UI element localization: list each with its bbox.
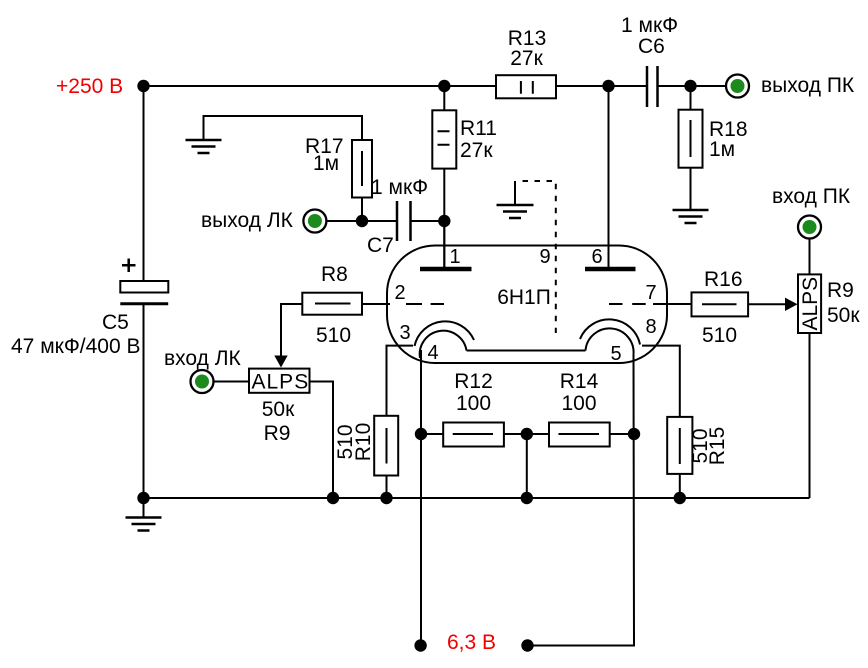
wire node to C7: [362, 220, 397, 222]
arrow wiper left pot: [274, 356, 287, 368]
svg-text:100: 100: [456, 392, 491, 415]
wire heater pin 4 down: [420, 350, 422, 646]
wire cathode pin 8 to R15: [642, 346, 680, 417]
grid left dashes pin 2: [406, 303, 444, 305]
resistor R18: [690, 86, 692, 110]
wire pot R9 to ground bus: [310, 382, 334, 499]
wire anode pin 6 lead: [608, 86, 610, 269]
wire terminal to pot R9: [214, 381, 250, 383]
resistor R8: [302, 293, 362, 315]
wire C5 bottom to ground bus: [143, 305, 145, 498]
svg-text:R12: R12: [454, 370, 493, 393]
svg-text:R10: R10: [352, 423, 375, 462]
ground bus bottom: [144, 497, 810, 499]
node junction dot C7/R11: [438, 215, 450, 227]
svg-text:C6: C6: [638, 35, 665, 58]
wire grid 7 to R16: [653, 303, 692, 305]
svg-text:R14: R14: [560, 370, 599, 393]
node bus dot C5: [137, 492, 149, 504]
potentiometer R9 left ALPS: [249, 369, 310, 393]
svg-text:510: 510: [702, 324, 737, 347]
svg-text:8: 8: [645, 316, 656, 338]
svg-text:1м: 1м: [709, 138, 735, 161]
svg-text:выход ЛК: выход ЛК: [201, 209, 294, 232]
wire R11 to anode pin 1: [443, 169, 445, 269]
node heater terminal right: [521, 639, 533, 651]
node junction dot rail R18: [684, 80, 696, 92]
svg-text:27к: 27к: [460, 139, 493, 162]
svg-text:выход ПК: выход ПК: [761, 74, 855, 97]
wire heater pin 5 down: [528, 355, 635, 646]
wire pot R9 right to bus: [809, 333, 811, 498]
svg-text:R9: R9: [827, 279, 854, 302]
svg-text:ALPS: ALPS: [252, 371, 310, 394]
wire dashed shield to pin 9: [516, 181, 556, 333]
svg-text:47 мкФ/400 В: 47 мкФ/400 В: [11, 335, 141, 358]
node junction dot pin4/R12: [415, 428, 427, 440]
svg-text:R16: R16: [704, 268, 743, 291]
svg-text:C7: C7: [367, 234, 394, 257]
potentiometer R9 right ALPS: [798, 274, 821, 333]
wire rail R13 to C6: [556, 85, 647, 87]
terminal выход ПК: [726, 75, 749, 98]
svg-text:50к: 50к: [827, 304, 860, 327]
wire R18 to ground: [690, 168, 692, 210]
heater right arc: [586, 328, 634, 354]
anode plate right: [585, 267, 636, 272]
node junction dot rail R11: [438, 80, 450, 92]
wire top rail left segment: [144, 85, 497, 87]
node bus dot R15: [674, 492, 686, 504]
ground symbol top (R17 feed): [204, 116, 363, 140]
svg-text:+250 В: +250 В: [56, 75, 123, 98]
ground symbol bottom left: [143, 498, 145, 518]
node junction dot center heater: [521, 428, 533, 440]
wire rail C6 to output terminal: [658, 85, 727, 87]
svg-text:3: 3: [399, 322, 410, 344]
wire R12 left lead: [421, 433, 443, 435]
wire terminal to pot R9 right: [809, 239, 811, 275]
wire R17 bottom to output node: [361, 198, 363, 222]
svg-text:510: 510: [316, 324, 351, 347]
wire R15 to bus: [679, 474, 681, 498]
svg-text:1м: 1м: [313, 152, 339, 175]
resistor R11: [443, 86, 445, 110]
resistor R14: [549, 423, 610, 447]
grid right dashes pin 7: [609, 303, 646, 305]
node junction dot +250V: [137, 80, 149, 92]
node junction dot output LK: [356, 215, 368, 227]
svg-text:C5: C5: [102, 311, 129, 334]
cathode right arc: [580, 319, 640, 344]
resistor R15: [667, 417, 692, 474]
wire C7 to anode line: [411, 220, 445, 222]
svg-text:R9: R9: [264, 422, 291, 445]
svg-text:вход ЛК: вход ЛК: [164, 347, 242, 370]
wire anode pin 1 lead: [443, 221, 445, 269]
svg-text:R8: R8: [321, 263, 348, 286]
svg-text:4: 4: [427, 342, 438, 364]
node bus dot R10: [380, 492, 392, 504]
anode plate left: [420, 267, 472, 272]
wire R12 right to center node: [504, 433, 549, 435]
resistor R16: [692, 292, 749, 316]
svg-text:100: 100: [561, 392, 596, 415]
resistor R13: [496, 75, 556, 98]
svg-text:6,3 В: 6,3 В: [447, 631, 496, 654]
arrow wiper right pot: [785, 298, 798, 311]
svg-text:1: 1: [449, 246, 460, 268]
wire R16 to pot arrow: [748, 303, 786, 305]
wire R14 right lead: [610, 433, 634, 435]
svg-text:7: 7: [645, 282, 656, 304]
resistor R10: [374, 416, 398, 476]
svg-text:1 мкФ: 1 мкФ: [621, 14, 678, 37]
svg-text:6Н1П: 6Н1П: [497, 286, 551, 309]
svg-text:50к: 50к: [262, 398, 295, 421]
resistor R12: [443, 423, 504, 447]
node heater terminal left: [414, 639, 426, 651]
node junction dot rail pin6: [602, 80, 614, 92]
wire grid 2 to R8: [362, 303, 390, 305]
wire terminal to node: [327, 220, 363, 222]
svg-text:27к: 27к: [510, 47, 543, 70]
resistor R17: [352, 140, 372, 198]
capacitor C7: [397, 201, 411, 241]
svg-text:5: 5: [610, 343, 621, 365]
heater left arc: [420, 331, 467, 358]
wire +250V down to C5: [143, 86, 145, 281]
svg-text:6: 6: [591, 246, 602, 268]
wire center node to bus: [526, 434, 528, 498]
svg-text:R15: R15: [706, 427, 729, 466]
node bus dot pot left: [327, 492, 339, 504]
svg-text:2: 2: [394, 282, 405, 304]
svg-text:ALPS: ALPS: [799, 277, 822, 331]
svg-text:вход ПК: вход ПК: [772, 185, 851, 208]
ground symbol under R18: [673, 210, 709, 223]
ground symbol shield pin 9: [514, 181, 516, 205]
svg-text:1 мкФ: 1 мкФ: [371, 176, 428, 199]
heater filament line: [467, 350, 586, 352]
svg-text:9: 9: [539, 246, 550, 268]
svg-text:R11: R11: [460, 117, 497, 140]
wire R8 to pot wiper arrow: [281, 304, 302, 356]
capacitor C6: [647, 66, 658, 107]
cathode left arc: [415, 321, 475, 346]
tube envelope U1: [387, 246, 667, 364]
node junction dot pin5/R14: [628, 428, 640, 440]
capacitor C5: [122, 259, 136, 273]
wire cathode pin 3 to R10: [387, 346, 414, 416]
node bus dot center: [521, 492, 533, 504]
wire R10 to bus: [386, 476, 388, 499]
